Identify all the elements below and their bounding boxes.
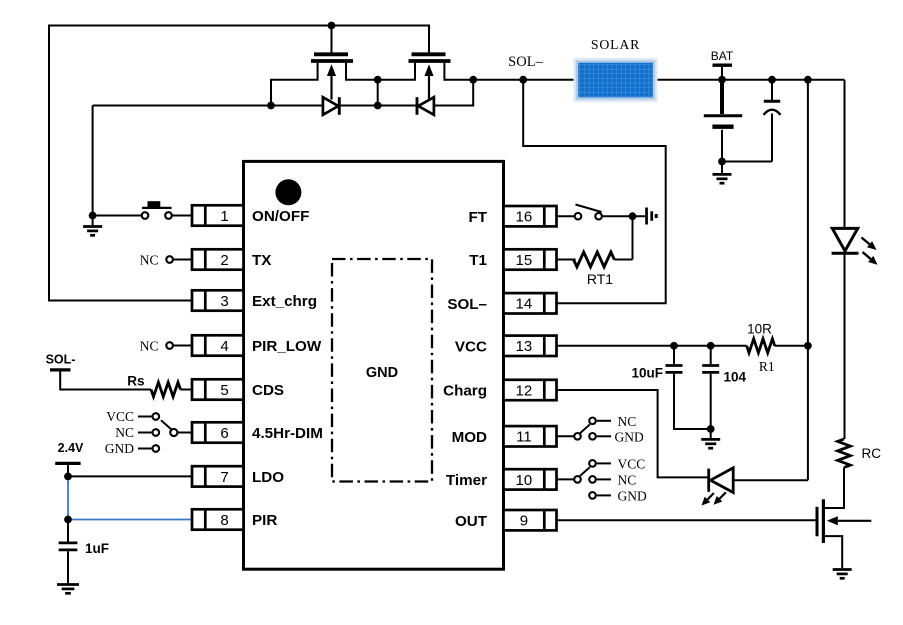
svg-text:SOLAR: SOLAR	[591, 37, 640, 52]
svg-text:8: 8	[220, 512, 228, 529]
svg-text:BAT: BAT	[711, 49, 734, 63]
svg-text:ON/OFF: ON/OFF	[252, 208, 309, 225]
svg-text:14: 14	[516, 296, 533, 313]
svg-text:5: 5	[220, 382, 228, 399]
svg-text:OUT: OUT	[455, 513, 488, 530]
svg-text:NC: NC	[115, 425, 134, 440]
svg-text:SOL–: SOL–	[508, 54, 543, 70]
svg-text:104: 104	[724, 370, 747, 385]
svg-text:VCC: VCC	[618, 456, 646, 471]
svg-text:1uF: 1uF	[85, 541, 109, 556]
svg-text:Timer: Timer	[446, 472, 487, 489]
svg-text:NC: NC	[140, 253, 159, 268]
svg-text:1: 1	[220, 208, 228, 225]
svg-text:FT: FT	[468, 209, 487, 226]
svg-text:11: 11	[516, 429, 532, 446]
svg-text:2.4V: 2.4V	[58, 441, 84, 455]
svg-text:Charg: Charg	[443, 383, 487, 400]
svg-text:NC: NC	[618, 472, 637, 487]
svg-text:PIR: PIR	[252, 512, 277, 529]
svg-text:3: 3	[220, 293, 228, 310]
svg-text:2: 2	[220, 252, 228, 269]
svg-text:Rs: Rs	[127, 373, 144, 388]
svg-text:GND: GND	[105, 441, 134, 456]
svg-text:16: 16	[516, 209, 533, 226]
svg-text:R1: R1	[759, 359, 775, 374]
svg-text:GND: GND	[618, 488, 647, 503]
svg-text:TX: TX	[252, 252, 271, 269]
svg-text:10R: 10R	[747, 322, 772, 337]
svg-text:PIR_LOW: PIR_LOW	[252, 338, 322, 355]
svg-text:SOL-: SOL-	[46, 353, 76, 367]
svg-text:SOL–: SOL–	[447, 296, 487, 313]
svg-text:13: 13	[516, 338, 533, 355]
svg-text:CDS: CDS	[252, 382, 284, 399]
svg-text:RT1: RT1	[587, 271, 613, 287]
svg-text:7: 7	[220, 469, 228, 486]
svg-text:Ext_chrg: Ext_chrg	[252, 293, 317, 310]
svg-text:6: 6	[220, 425, 228, 442]
svg-text:VCC: VCC	[106, 409, 134, 424]
svg-text:10: 10	[516, 472, 533, 489]
svg-text:RC: RC	[862, 446, 882, 461]
svg-text:4.5Hr-DIM: 4.5Hr-DIM	[252, 425, 323, 442]
svg-text:9: 9	[520, 513, 528, 530]
svg-text:NC: NC	[140, 339, 159, 354]
svg-text:NC: NC	[618, 414, 637, 429]
svg-text:T1: T1	[469, 252, 487, 269]
svg-text:12: 12	[516, 382, 533, 399]
svg-text:15: 15	[516, 252, 533, 269]
svg-text:GND: GND	[615, 429, 644, 444]
svg-text:VCC: VCC	[455, 338, 487, 355]
svg-text:4: 4	[220, 338, 228, 355]
svg-text:MOD: MOD	[452, 429, 487, 446]
svg-text:10uF: 10uF	[631, 366, 663, 381]
svg-text:LDO: LDO	[252, 469, 284, 486]
svg-text:GND: GND	[366, 365, 398, 381]
